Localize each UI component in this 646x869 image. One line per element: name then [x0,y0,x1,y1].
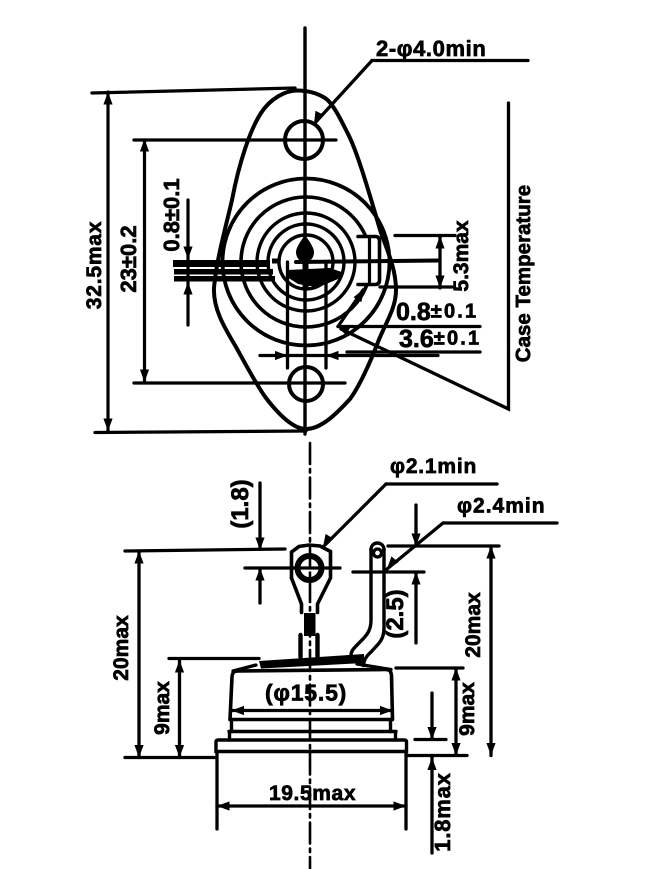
svg-text:9max: 9max [151,681,174,735]
svg-text:9max: 9max [456,682,479,736]
svg-text:5.3max: 5.3max [450,220,473,292]
svg-text:(2.5): (2.5) [382,589,409,638]
svg-text:32.5max: 32.5max [83,221,106,310]
svg-text:1.8max: 1.8max [430,772,455,851]
svg-text:Case Temperature: Case Temperature [512,185,535,362]
svg-text:20max: 20max [110,615,133,681]
svg-text:φ2.1min: φ2.1min [390,455,477,478]
svg-text:23±0.2: 23±0.2 [116,225,141,292]
svg-text:(φ15.5): (φ15.5) [265,680,347,706]
svg-text:0.8±0.1: 0.8±0.1 [396,298,478,326]
svg-text:19.5max: 19.5max [269,782,356,805]
svg-text:20max: 20max [462,592,485,658]
svg-text:3.6±0.1: 3.6±0.1 [399,325,481,353]
svg-text:(1.8): (1.8) [227,479,254,528]
svg-text:0.8±0.1: 0.8±0.1 [159,178,184,251]
svg-text:2-φ4.0min: 2-φ4.0min [376,36,486,61]
svg-text:φ2.4min: φ2.4min [457,495,546,518]
